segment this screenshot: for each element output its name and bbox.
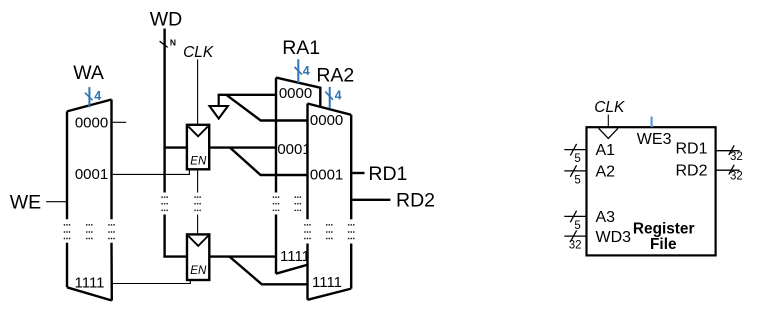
svg-text:A2: A2 — [596, 164, 616, 181]
read mux RA1 (16:1) — [276, 78, 320, 274]
register file block symbol — [587, 127, 716, 255]
svg-text:32: 32 — [730, 171, 743, 183]
svg-text:0000: 0000 — [310, 112, 343, 129]
wire CLK stub (block) — [607, 115, 609, 128]
read mux RA2 (16:1) — [308, 104, 352, 300]
WD3 input wire, bus width 32 — [564, 235, 586, 237]
wire RD2 output — [352, 199, 390, 201]
svg-text:32: 32 — [730, 151, 743, 163]
write-address decoder WA (4:16) — [67, 100, 112, 301]
svg-text:RD2: RD2 — [675, 162, 707, 179]
svg-text:1111: 1111 — [312, 274, 342, 291]
svg-text:RA2: RA2 — [316, 64, 354, 86]
A3 input wire, bus width 5 — [564, 215, 586, 217]
svg-text:4: 4 — [335, 89, 342, 103]
svg-text:N: N — [170, 38, 176, 48]
svg-text:EN: EN — [190, 156, 207, 168]
RA2 address wire (blue), bus width 4 — [325, 87, 341, 108]
svg-text:A3: A3 — [596, 209, 616, 226]
svg-text:4: 4 — [94, 89, 101, 103]
svg-text:EN: EN — [190, 265, 207, 277]
wire WD to register 1 D input — [165, 146, 189, 148]
wire WD to register 2 D input — [163, 255, 188, 257]
svg-text:RD1: RD1 — [675, 141, 707, 158]
wire register 2 Q to RA1 input 1111 — [209, 255, 276, 257]
WE3 wire (blue tick) — [650, 117, 652, 128]
RD2 output wire, bus width 32 — [716, 169, 740, 171]
svg-text:32: 32 — [569, 240, 582, 252]
register 2 (x1111) flip-flop with EN — [187, 234, 209, 280]
svg-text:5: 5 — [574, 220, 580, 232]
wire ground to RA2 input 0000 — [226, 95, 307, 121]
ground (register 0 reads as 0) — [210, 95, 277, 119]
svg-text:0001: 0001 — [310, 166, 343, 183]
svg-text:RA1: RA1 — [282, 37, 320, 59]
svg-text:File: File — [650, 236, 677, 253]
svg-text:RD2: RD2 — [396, 189, 435, 211]
svg-text:WA: WA — [73, 62, 104, 84]
clock wedge on block — [599, 128, 618, 138]
svg-text:WD: WD — [150, 9, 183, 31]
svg-text:CLK: CLK — [594, 99, 625, 116]
svg-text:4: 4 — [303, 64, 310, 78]
RA1 address wire (blue), bus width 4 — [295, 59, 310, 83]
svg-text:RD1: RD1 — [368, 163, 407, 185]
register 1 (x0001) flip-flop with EN — [187, 125, 209, 170]
svg-text:CLK: CLK — [183, 44, 214, 61]
svg-text:5: 5 — [574, 153, 580, 165]
A1 input wire, bus width 5 — [564, 149, 586, 151]
wire register 1 Q to RA1 input 0001 — [209, 146, 276, 148]
wire WE input — [46, 201, 67, 203]
wire WD vertical bus — [163, 29, 165, 257]
RA1 mux ellipsis dots — [273, 196, 302, 211]
wire register 2 Q to RA2 input 1111 — [230, 257, 308, 285]
wire decoder output 0000 (unused stub) — [113, 121, 127, 123]
block name Register File — [633, 220, 695, 253]
svg-text:5: 5 — [574, 174, 580, 186]
WA address wire (blue), bus width 4 — [85, 87, 101, 107]
wire CLK vertical — [197, 60, 199, 235]
svg-text:A1: A1 — [596, 142, 616, 159]
decoder ellipsis dots — [64, 224, 115, 239]
RD1 output wire, bus width 32 — [716, 150, 740, 152]
svg-text:0000: 0000 — [279, 85, 312, 102]
wire decoder output 1111 to EN of register 2 — [113, 279, 191, 283]
svg-text:Register: Register — [633, 220, 695, 237]
A2 input wire, bus width 5 — [564, 170, 586, 172]
wire decoder output 0001 to EN of register 1 — [113, 169, 190, 175]
svg-text:0001: 0001 — [75, 166, 108, 183]
wire register 1 Q to RA2 input 0001 — [230, 148, 308, 175]
svg-text:0001: 0001 — [277, 141, 310, 158]
RA2 mux ellipsis dots — [304, 224, 355, 239]
svg-text:WE3: WE3 — [637, 131, 672, 148]
svg-text:1111: 1111 — [280, 248, 310, 265]
svg-text:WD3: WD3 — [596, 229, 632, 246]
svg-text:0000: 0000 — [75, 115, 108, 132]
WD and CLK wire break dots — [161, 196, 201, 211]
svg-text:WE: WE — [10, 191, 41, 213]
svg-text:1111: 1111 — [74, 274, 104, 291]
WD bus width slash N — [160, 41, 168, 47]
wire RD1 output — [352, 172, 364, 174]
